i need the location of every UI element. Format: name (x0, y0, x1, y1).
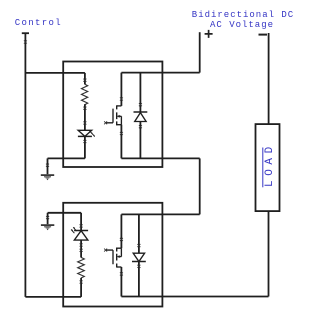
svg-text:Control: Control (15, 18, 62, 28)
svg-text:LOAD: LOAD (264, 142, 276, 187)
svg-text:Bidirectional DC: Bidirectional DC (192, 10, 294, 20)
svg-text:AC Voltage: AC Voltage (210, 20, 274, 30)
